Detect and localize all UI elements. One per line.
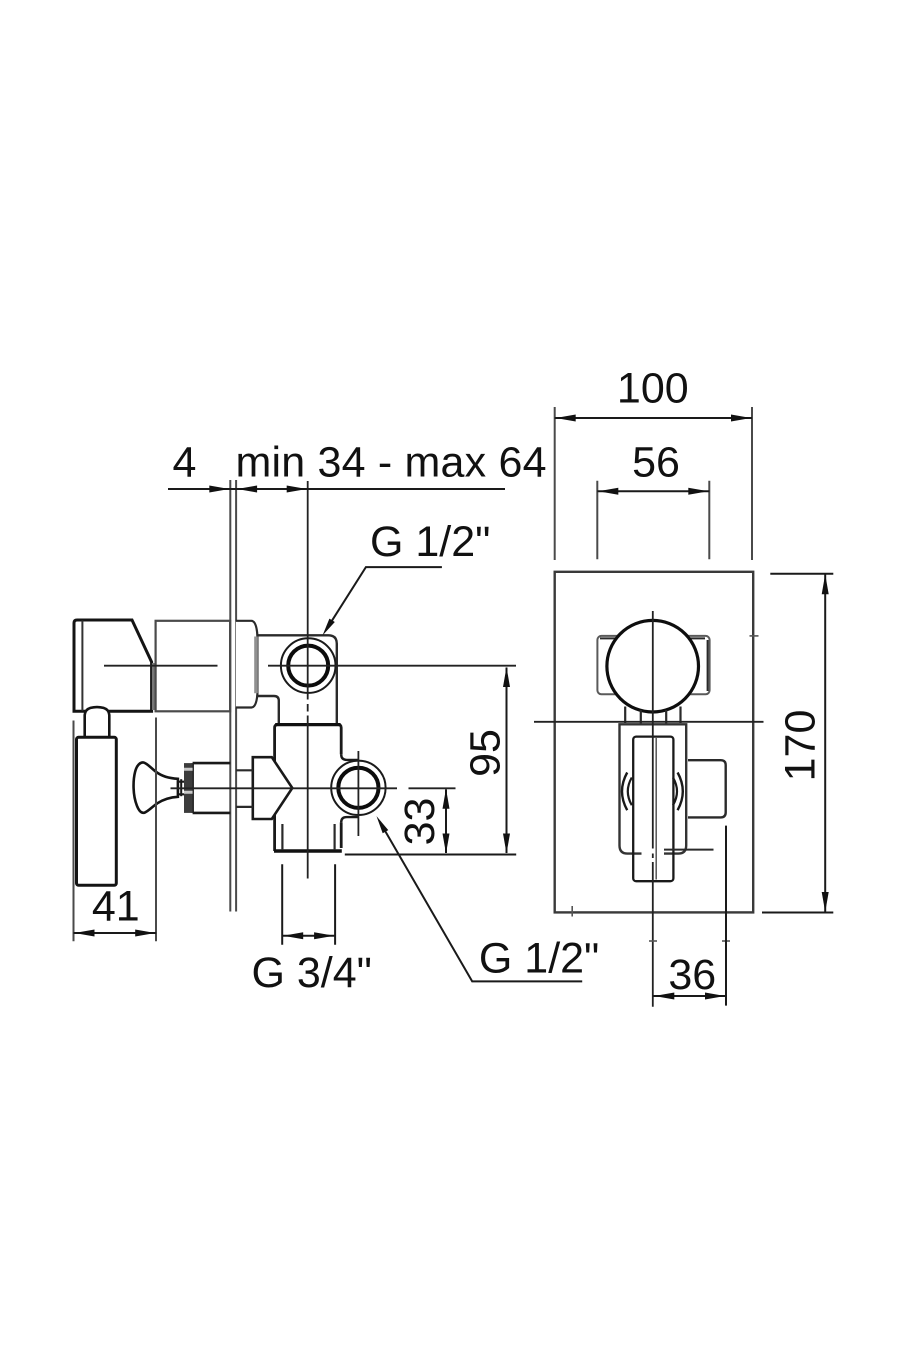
- horizontal centerline lower port: [171, 787, 456, 789]
- tick right edge: [750, 635, 759, 637]
- ext 41 right: [155, 718, 157, 942]
- top port bold circle: [288, 646, 328, 686]
- neck outer lines: [625, 707, 680, 724]
- dim 56 line: [597, 490, 709, 492]
- lower port vertical centerline: [357, 751, 359, 836]
- svg-text:41: 41: [92, 883, 140, 931]
- arrow G34 right: [314, 932, 334, 939]
- ball handle: [607, 620, 699, 712]
- svg-text:4: 4: [173, 439, 197, 487]
- svg-text:G 1/2": G 1/2": [479, 935, 599, 983]
- FRONT VIEW: [534, 572, 764, 1007]
- front plate rectangle: [555, 572, 754, 913]
- dim 95 line: [506, 668, 508, 854]
- knob knurled block: [184, 763, 193, 813]
- top port outer circle: [281, 638, 336, 693]
- arrow 33 up: [443, 789, 450, 809]
- ext 95/33 bottom: [345, 854, 516, 856]
- arrow 95 down: [503, 834, 510, 854]
- left paren arc outer: [622, 773, 627, 811]
- lower body bottom edge: [274, 849, 342, 852]
- ext 170 bottom: [762, 912, 833, 914]
- leader lower G12: [384, 829, 582, 981]
- ext 100 left: [554, 407, 556, 560]
- front horizontal centerline: [534, 721, 764, 723]
- arrow 100 left: [556, 415, 576, 422]
- dim 100 line: [555, 417, 752, 419]
- ext 41 left: [73, 721, 75, 942]
- arrow 170 down: [822, 892, 829, 912]
- svg-text:36: 36: [668, 951, 716, 999]
- horizontal centerline top port: [104, 665, 516, 667]
- svg-text:G 3/4": G 3/4": [252, 949, 372, 997]
- leader lower G12 arrowhead: [377, 816, 389, 833]
- dim 41 line: [74, 932, 157, 934]
- neck inner lines: [641, 710, 666, 737]
- dim 170 line: [824, 574, 826, 912]
- svg-text:33: 33: [396, 798, 444, 846]
- right outlet box: [688, 760, 726, 817]
- arrow 36 left: [654, 993, 674, 1000]
- handle cap inner line: [81, 621, 83, 711]
- arrow 56 left: [598, 488, 618, 495]
- dim 33 line: [445, 789, 447, 853]
- arrow 170 up: [822, 574, 829, 594]
- svg-text:100: 100: [617, 365, 689, 413]
- dim line 4 / min34-max64: [168, 488, 505, 490]
- front vertical centerline: [652, 611, 654, 1007]
- tick 36 right ext: [722, 940, 730, 942]
- lower body block: [275, 725, 342, 851]
- dim 36 line: [653, 995, 726, 997]
- arrow G34 left: [283, 932, 303, 939]
- lower port bold circle: [338, 768, 378, 808]
- ext G34 left: [281, 864, 283, 945]
- under-box line: [664, 849, 714, 851]
- arrow left from plate: [237, 486, 257, 493]
- svg-text:56: 56: [632, 439, 680, 487]
- arrow right to centerline: [287, 486, 307, 493]
- flange shade band: [254, 637, 258, 694]
- arrow 33 down: [443, 834, 450, 854]
- lever bar: [77, 737, 117, 885]
- escutcheon outer: [597, 636, 709, 694]
- arrow 100 right: [731, 415, 751, 422]
- upper body left step: [256, 696, 278, 725]
- lower body top edge bold: [275, 723, 340, 726]
- leader top G12: [331, 567, 442, 622]
- handle joint edge: [152, 663, 155, 710]
- svg-text:170: 170: [777, 710, 825, 782]
- escutcheon inner accents: [600, 638, 708, 691]
- upper body outline: [256, 635, 336, 724]
- lower port outer circle: [331, 761, 385, 815]
- svg-text:min 34 - max 64: min 34 - max 64: [236, 439, 547, 487]
- lever bar inner ridge: [655, 738, 657, 880]
- lever slot white patch: [642, 846, 665, 859]
- ext 170 top: [770, 573, 833, 575]
- knob stem: [178, 782, 184, 795]
- right paren arc outer: [678, 773, 683, 811]
- ext 56 right: [708, 481, 710, 560]
- handle neck: [85, 707, 110, 737]
- leader top G12 arrowhead: [323, 619, 335, 636]
- knurl light stripes: [184, 769, 193, 792]
- side port boss tangents: [341, 754, 359, 822]
- wall plate: [230, 480, 236, 912]
- cartridge cylinder: [156, 621, 231, 712]
- ext 36 right: [725, 826, 727, 1006]
- arrow 95 up: [503, 667, 510, 687]
- tick bottom edge: [571, 906, 573, 917]
- ext 100 right: [751, 407, 753, 560]
- flange escutcheon hub: [236, 621, 258, 708]
- right paren arc inner: [673, 778, 677, 806]
- SIDE VIEW: [74, 480, 516, 912]
- arrow right to plate: [209, 486, 229, 493]
- outlet inner walls: [282, 824, 334, 850]
- lever bar front: [633, 737, 673, 882]
- vertical centerline valve: [307, 481, 309, 879]
- dim G34 line: [282, 935, 335, 937]
- diverter pentagon: [253, 757, 292, 819]
- bell rim second edge: [180, 779, 182, 796]
- DIMENSIONS: [74, 407, 834, 1006]
- svg-text:95: 95: [462, 729, 510, 777]
- arrow 56 right: [688, 488, 708, 495]
- diverter stem through plate: [236, 770, 253, 807]
- bell knob: [134, 762, 178, 812]
- sleeve outer: [620, 724, 687, 853]
- ext 56 left: [596, 481, 598, 560]
- left paren arc inner: [628, 778, 632, 806]
- svg-text:G 1/2": G 1/2": [370, 518, 490, 566]
- ext G34 right: [334, 864, 336, 945]
- arrow 41 left: [75, 930, 95, 937]
- arrow 41 right: [135, 930, 155, 937]
- arrow 36 right: [705, 993, 725, 1000]
- tick 36 left ext: [649, 940, 657, 942]
- knob cylinder: [193, 763, 231, 813]
- handle body: [74, 620, 152, 711]
